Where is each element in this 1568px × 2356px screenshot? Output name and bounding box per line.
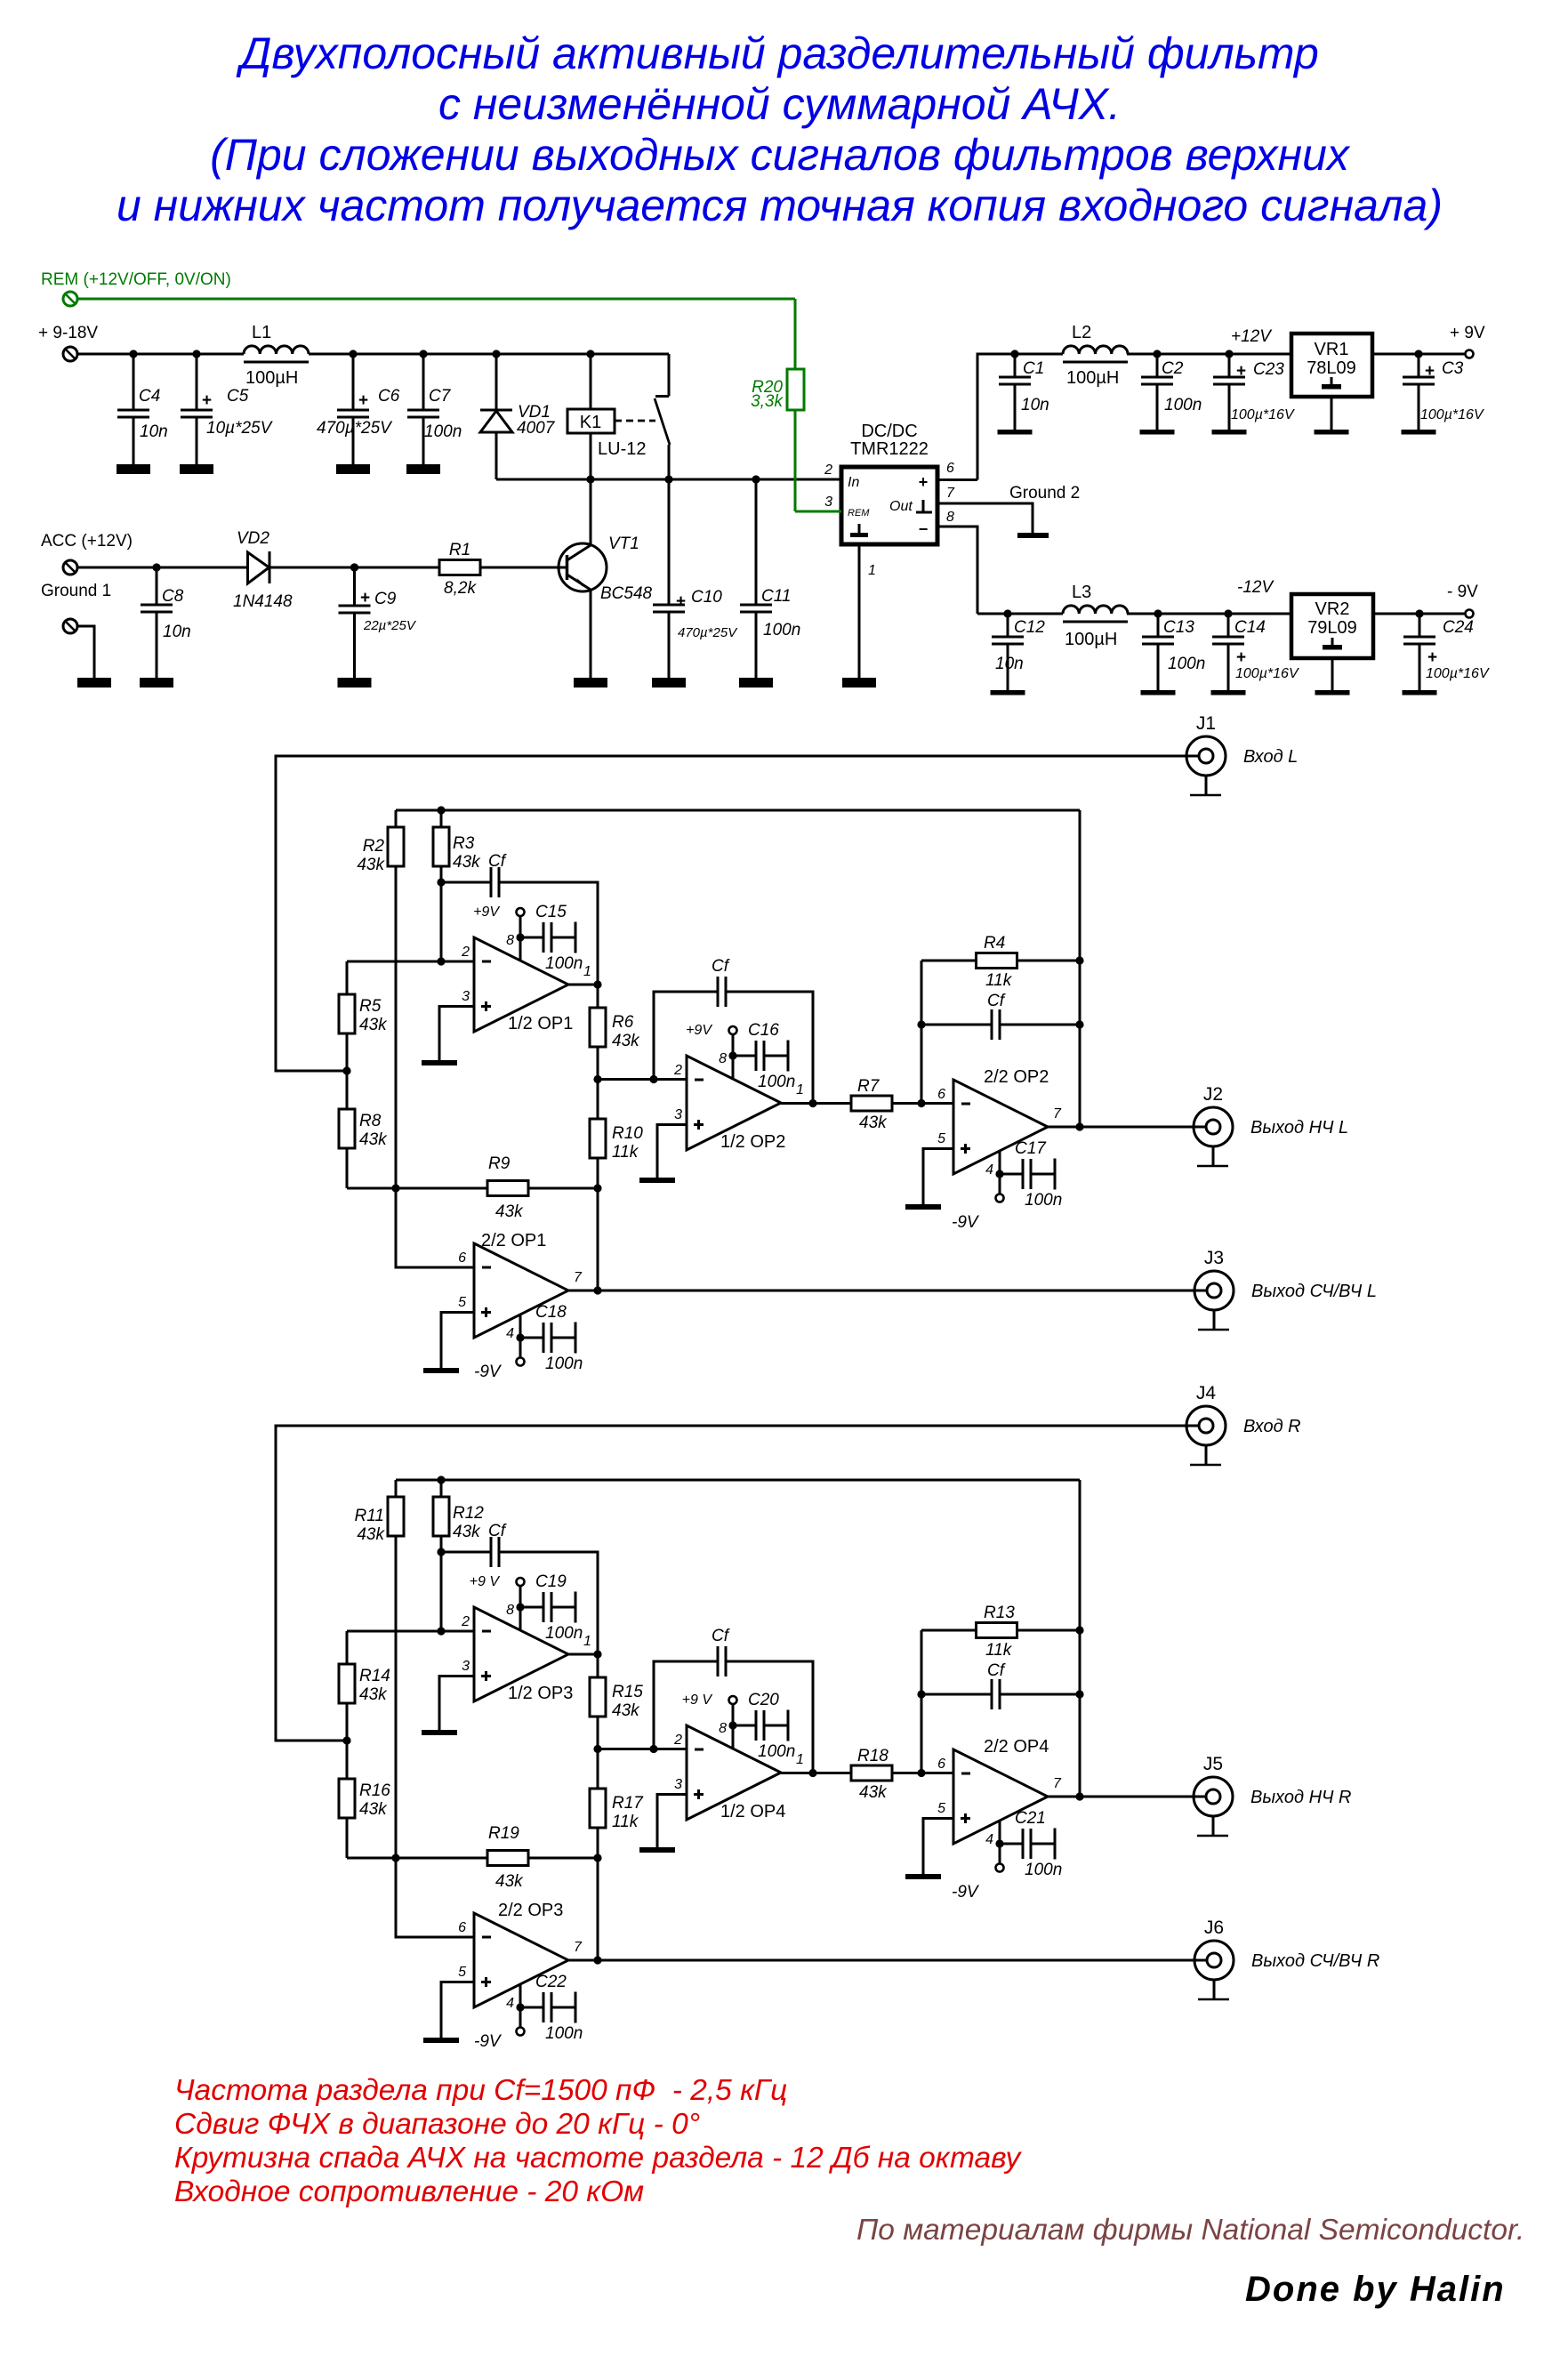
svg-text:R1: R1	[449, 541, 470, 559]
svg-text:Выход СЧ/ВЧ L: Выход СЧ/ВЧ L	[1251, 1282, 1377, 1301]
svg-text:2/2 OP2: 2/2 OP2	[984, 1067, 1049, 1087]
svg-text:R18: R18	[857, 1747, 889, 1765]
svg-text:R11: R11	[355, 1507, 384, 1525]
svg-text:C19: C19	[535, 1572, 567, 1591]
svg-text:C9: C9	[374, 590, 397, 608]
svg-text:R7: R7	[857, 1077, 880, 1096]
svg-text:100n: 100n	[424, 422, 462, 441]
svg-text:2/2 OP1: 2/2 OP1	[481, 1231, 546, 1250]
svg-text:C16: C16	[748, 1021, 779, 1040]
svg-text:C17: C17	[1015, 1139, 1047, 1158]
svg-text:+: +	[360, 589, 370, 607]
svg-text:R14: R14	[359, 1667, 390, 1685]
svg-text:11k: 11k	[985, 971, 1013, 990]
svg-text:Cf: Cf	[987, 992, 1006, 1010]
svg-text:11k: 11k	[612, 1813, 639, 1831]
svg-text:4: 4	[506, 1326, 514, 1341]
svg-text:C11: C11	[761, 587, 791, 606]
svg-text:+: +	[919, 473, 929, 491]
svg-text:BC548: BC548	[600, 584, 653, 603]
svg-text:470µ*25V: 470µ*25V	[678, 625, 738, 640]
svg-text:VR1: VR1	[1315, 340, 1349, 359]
svg-text:10µ*25V: 10µ*25V	[206, 419, 274, 438]
svg-text:78L09: 78L09	[1307, 358, 1356, 378]
svg-text:TMR1222: TMR1222	[850, 439, 929, 459]
svg-text:C2: C2	[1162, 359, 1184, 378]
svg-text:C14: C14	[1234, 618, 1266, 637]
svg-text:C7: C7	[429, 387, 452, 406]
svg-text:+: +	[1427, 648, 1437, 667]
svg-text:1: 1	[796, 1082, 804, 1098]
svg-text:100n: 100n	[545, 954, 583, 973]
svg-text:L3: L3	[1072, 583, 1091, 602]
svg-text:C6: C6	[378, 387, 400, 406]
svg-text:Вход L: Вход L	[1243, 747, 1298, 767]
svg-text:100µ*16V: 100µ*16V	[1420, 407, 1484, 422]
svg-text:43k: 43k	[359, 1800, 388, 1819]
svg-text:2/2 OP4: 2/2 OP4	[984, 1737, 1049, 1757]
svg-text:8,2k: 8,2k	[444, 579, 477, 598]
svg-text:REM (+12V/OFF, 0V/ON): REM (+12V/OFF, 0V/ON)	[41, 270, 231, 289]
svg-text:−: −	[919, 520, 929, 538]
svg-text:1/2 OP3: 1/2 OP3	[508, 1684, 573, 1703]
svg-text:1: 1	[868, 563, 876, 578]
svg-text:R10: R10	[612, 1124, 643, 1143]
svg-text:VR2: VR2	[1315, 599, 1350, 619]
svg-text:K1: K1	[580, 413, 601, 432]
svg-text:R12: R12	[453, 1504, 484, 1523]
svg-text:43k: 43k	[359, 1016, 388, 1034]
svg-text:C23: C23	[1253, 360, 1284, 379]
svg-text:Cf: Cf	[488, 852, 507, 871]
svg-text:Ground 1: Ground 1	[41, 582, 111, 600]
svg-text:100µH: 100µH	[1066, 368, 1119, 388]
svg-text:100n: 100n	[1168, 655, 1205, 673]
svg-text:43k: 43k	[357, 856, 385, 874]
svg-text:1: 1	[583, 964, 591, 979]
svg-text:100n: 100n	[758, 1742, 795, 1761]
svg-text:2: 2	[824, 462, 832, 478]
svg-text:R17: R17	[612, 1794, 644, 1813]
svg-text:C15: C15	[535, 903, 567, 921]
svg-text:43k: 43k	[495, 1872, 524, 1891]
svg-text:C18: C18	[535, 1303, 567, 1322]
svg-text:100n: 100n	[758, 1073, 795, 1091]
svg-text:C3: C3	[1442, 359, 1464, 378]
svg-text:2/2 OP3: 2/2 OP3	[498, 1901, 563, 1920]
svg-text:+: +	[358, 391, 368, 410]
svg-text:+ 9V: + 9V	[1450, 324, 1485, 342]
svg-text:J2: J2	[1203, 1084, 1223, 1105]
svg-text:C21: C21	[1015, 1809, 1046, 1828]
svg-text:6: 6	[458, 1920, 466, 1935]
svg-text:R8: R8	[359, 1112, 382, 1130]
svg-text:+9V: +9V	[473, 905, 500, 920]
svg-text:1N4148: 1N4148	[233, 592, 293, 611]
svg-text:R13: R13	[984, 1604, 1015, 1622]
svg-text:5: 5	[458, 1295, 466, 1310]
svg-text:3: 3	[462, 989, 470, 1004]
svg-text:Cf: Cf	[987, 1661, 1006, 1680]
svg-text:R9: R9	[488, 1154, 511, 1173]
svg-text:Ground 2: Ground 2	[1009, 484, 1080, 503]
svg-text:R15: R15	[612, 1683, 643, 1701]
svg-text:8: 8	[506, 1603, 514, 1618]
svg-text:11k: 11k	[612, 1143, 639, 1162]
svg-text:3: 3	[462, 1659, 470, 1674]
svg-text:4: 4	[506, 1996, 514, 2011]
svg-text:43k: 43k	[453, 1523, 481, 1541]
svg-text:C8: C8	[162, 587, 184, 606]
svg-text:7: 7	[574, 1270, 583, 1285]
svg-text:-9V: -9V	[952, 1883, 980, 1902]
svg-text:L2: L2	[1072, 323, 1091, 342]
svg-text:J5: J5	[1203, 1754, 1223, 1774]
svg-text:REM: REM	[848, 508, 870, 519]
svg-text:8: 8	[506, 933, 514, 948]
svg-text:3: 3	[674, 1777, 682, 1792]
svg-text:L1: L1	[252, 323, 271, 342]
svg-text:43k: 43k	[359, 1130, 388, 1149]
svg-text:43k: 43k	[612, 1032, 640, 1050]
svg-text:+9 V: +9 V	[470, 1574, 501, 1589]
svg-text:ACC (+12V): ACC (+12V)	[41, 532, 133, 551]
svg-text:3: 3	[824, 495, 832, 510]
svg-text:100µH: 100µH	[1065, 630, 1117, 649]
svg-text:2: 2	[673, 1063, 682, 1078]
svg-text:R2: R2	[363, 837, 385, 856]
svg-text:Выход НЧ L: Выход НЧ L	[1250, 1118, 1348, 1138]
svg-text:1: 1	[583, 1634, 591, 1649]
svg-text:43k: 43k	[612, 1701, 640, 1720]
svg-text:C20: C20	[748, 1691, 779, 1709]
svg-text:R5: R5	[359, 997, 382, 1016]
svg-text:5: 5	[937, 1131, 945, 1146]
svg-text:100n: 100n	[1025, 1191, 1062, 1210]
svg-text:C1: C1	[1023, 359, 1044, 378]
svg-text:-12V: -12V	[1237, 578, 1275, 597]
svg-text:100n: 100n	[545, 1624, 583, 1643]
svg-text:C22: C22	[535, 1973, 567, 1991]
svg-text:J4: J4	[1196, 1383, 1217, 1403]
svg-text:100n: 100n	[1164, 396, 1202, 414]
svg-text:43k: 43k	[453, 853, 481, 872]
svg-text:100n: 100n	[763, 621, 800, 639]
svg-text:100n: 100n	[545, 2024, 583, 2043]
svg-text:7: 7	[574, 1940, 583, 1955]
svg-text:+9V: +9V	[686, 1023, 712, 1038]
svg-text:5: 5	[937, 1801, 945, 1816]
svg-text:43k: 43k	[859, 1114, 888, 1132]
svg-text:+: +	[676, 592, 686, 611]
svg-text:7: 7	[946, 486, 955, 501]
svg-text:6: 6	[937, 1087, 945, 1102]
svg-text:C10: C10	[691, 588, 722, 607]
svg-text:2: 2	[673, 1733, 682, 1748]
svg-text:Out: Out	[889, 499, 913, 514]
svg-text:In: In	[848, 475, 859, 490]
svg-text:1/2 OP4: 1/2 OP4	[720, 1802, 785, 1821]
svg-text:R3: R3	[453, 834, 475, 853]
svg-text:6: 6	[937, 1757, 945, 1772]
svg-text:10n: 10n	[995, 655, 1024, 673]
svg-text:7: 7	[1053, 1106, 1062, 1122]
svg-text:8: 8	[719, 1051, 727, 1066]
svg-text:3,3k: 3,3k	[751, 392, 784, 411]
svg-text:3: 3	[674, 1107, 682, 1122]
svg-text:4007: 4007	[517, 419, 556, 438]
svg-text:R16: R16	[359, 1781, 390, 1800]
svg-text:Cf: Cf	[712, 957, 730, 976]
svg-text:43k: 43k	[495, 1202, 524, 1221]
svg-text:10n: 10n	[163, 623, 191, 641]
svg-text:10n: 10n	[140, 422, 168, 441]
svg-text:79L09: 79L09	[1307, 618, 1357, 638]
svg-text:8: 8	[946, 510, 954, 525]
svg-text:+9 V: +9 V	[682, 1693, 713, 1708]
svg-text:R19: R19	[488, 1824, 519, 1843]
svg-text:100n: 100n	[545, 1355, 583, 1373]
svg-text:Выход СЧ/ВЧ R: Выход СЧ/ВЧ R	[1251, 1951, 1379, 1971]
svg-text:C4: C4	[139, 387, 160, 406]
svg-text:100µH: 100µH	[245, 368, 298, 388]
svg-text:+ 9-18V: + 9-18V	[38, 324, 98, 342]
svg-text:+: +	[1236, 648, 1246, 667]
svg-text:LU-12: LU-12	[598, 439, 646, 459]
svg-text:1/2 OP2: 1/2 OP2	[720, 1132, 785, 1152]
svg-text:C13: C13	[1163, 618, 1194, 637]
svg-text:J1: J1	[1196, 713, 1216, 734]
svg-text:-9V: -9V	[474, 2032, 503, 2051]
svg-text:1: 1	[796, 1752, 804, 1767]
svg-text:470µ*25V: 470µ*25V	[317, 419, 393, 438]
svg-text:22µ*25V: 22µ*25V	[363, 618, 417, 633]
svg-text:100µ*16V: 100µ*16V	[1426, 666, 1490, 681]
svg-text:4: 4	[985, 1162, 993, 1178]
svg-text:Cf: Cf	[488, 1522, 507, 1540]
svg-text:+12V: +12V	[1231, 327, 1273, 346]
svg-text:43k: 43k	[359, 1685, 388, 1704]
svg-text:6: 6	[458, 1250, 466, 1266]
svg-text:DC/DC: DC/DC	[861, 422, 917, 441]
svg-text:-9V: -9V	[952, 1213, 980, 1232]
svg-text:C12: C12	[1014, 618, 1045, 637]
svg-text:100µ*16V: 100µ*16V	[1235, 666, 1299, 681]
svg-text:2: 2	[461, 945, 470, 960]
svg-text:J3: J3	[1204, 1248, 1224, 1268]
svg-text:R4: R4	[984, 934, 1005, 953]
svg-text:5: 5	[458, 1965, 466, 1980]
svg-text:Cf: Cf	[712, 1627, 730, 1645]
svg-text:100µ*16V: 100µ*16V	[1231, 407, 1295, 422]
svg-text:6: 6	[946, 461, 954, 476]
svg-text:11k: 11k	[985, 1641, 1013, 1660]
svg-text:Вход R: Вход R	[1243, 1417, 1301, 1436]
svg-text:7: 7	[1053, 1776, 1062, 1791]
svg-text:43k: 43k	[357, 1525, 385, 1544]
svg-text:-9V: -9V	[474, 1363, 503, 1381]
svg-text:- 9V: - 9V	[1447, 583, 1478, 601]
svg-text:10n: 10n	[1021, 396, 1049, 414]
svg-text:+: +	[1425, 362, 1435, 381]
svg-text:Выход НЧ R: Выход НЧ R	[1250, 1788, 1351, 1807]
svg-text:+: +	[1236, 362, 1246, 381]
svg-text:100n: 100n	[1025, 1861, 1062, 1879]
svg-text:2: 2	[461, 1614, 470, 1629]
svg-text:C24: C24	[1443, 618, 1474, 637]
svg-text:J6: J6	[1204, 1918, 1224, 1938]
svg-text:+: +	[202, 391, 212, 410]
svg-text:VD2: VD2	[237, 529, 269, 548]
svg-text:43k: 43k	[859, 1783, 888, 1802]
svg-text:8: 8	[719, 1721, 727, 1736]
svg-text:VT1: VT1	[608, 535, 639, 553]
svg-text:4: 4	[985, 1832, 993, 1847]
svg-text:C5: C5	[227, 387, 249, 406]
svg-text:1/2 OP1: 1/2 OP1	[508, 1014, 573, 1033]
svg-text:R6: R6	[612, 1013, 634, 1032]
